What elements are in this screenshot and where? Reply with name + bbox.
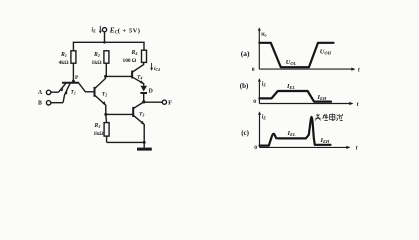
svg-text:D: D xyxy=(149,88,153,94)
graph (a) x-axis t xyxy=(252,67,360,73)
svg-text:1kΩ: 1kΩ xyxy=(92,60,103,66)
svg-text:1kΩ: 1kΩ xyxy=(94,131,105,137)
resistor R1 4k xyxy=(59,51,76,66)
svg-text:IEL: IEL xyxy=(287,130,296,137)
svg-text:UOH: UOH xyxy=(320,49,332,56)
wire: T2 emitter node to T3 base xyxy=(106,113,133,115)
wire: bottom rail R3 to T3 emitter xyxy=(107,141,145,143)
graph (a) waveform xyxy=(259,43,333,67)
svg-text:(a): (a) xyxy=(241,49,250,58)
svg-text:T2: T2 xyxy=(102,91,107,97)
node: T2 collector / T4 base xyxy=(104,75,107,78)
svg-text:(b): (b) xyxy=(240,82,249,90)
graph (b) x-axis t xyxy=(253,99,359,108)
svg-text:EC( + 5V): EC( + 5V) xyxy=(109,26,141,35)
transistor T3 (output pull-down) xyxy=(133,102,144,142)
node: supply-rail junction xyxy=(103,41,106,44)
ground xyxy=(137,142,152,150)
transistor T1 (multi-emitter input) xyxy=(58,83,94,103)
svg-text:F: F xyxy=(168,100,172,107)
svg-text:R1: R1 xyxy=(60,52,67,58)
svg-text:IEH: IEH xyxy=(320,137,330,144)
svg-text:iE: iE xyxy=(262,115,267,121)
graph (a) y-axis uo xyxy=(258,27,267,69)
wire: top rail xyxy=(73,42,144,51)
input terminal A xyxy=(38,90,58,96)
graph (c) waveform with current spike xyxy=(260,117,331,146)
svg-text:R4: R4 xyxy=(131,50,138,56)
svg-text:4kΩ: 4kΩ xyxy=(59,60,70,66)
output terminal F xyxy=(144,100,172,107)
svg-text:0: 0 xyxy=(253,99,256,105)
svg-text:T1: T1 xyxy=(71,90,76,96)
label spike current (Chinese pseudo-glyphs) xyxy=(315,114,343,121)
svg-text:P: P xyxy=(75,75,79,81)
resistor R2 1k xyxy=(92,51,109,66)
svg-text:R3: R3 xyxy=(94,123,101,129)
graph (b) waveform xyxy=(259,91,331,102)
diode D xyxy=(140,86,152,102)
wire: T2 collector node to T4 base xyxy=(106,75,133,77)
svg-text:B: B xyxy=(38,100,42,106)
graph (b) y-axis iE xyxy=(258,78,266,104)
transistor T2 (phase splitter) xyxy=(95,76,108,114)
svg-text:iE: iE xyxy=(92,28,97,34)
svg-text:100 Ω: 100 Ω xyxy=(123,58,137,64)
svg-text:R2: R2 xyxy=(93,52,100,58)
svg-text:IEL: IEL xyxy=(286,83,295,90)
wire: supply drop to top rail xyxy=(104,32,106,43)
wire: R1 to T1 base (node P) xyxy=(72,63,74,82)
node: T2 emitter junction xyxy=(104,113,107,116)
resistor R4 100 ohm xyxy=(123,50,147,64)
graph (c) x-axis t xyxy=(254,145,357,152)
wire: R2 down to T2 collector node xyxy=(105,63,107,76)
node: output junction xyxy=(142,100,145,103)
svg-text:(c): (c) xyxy=(241,129,249,137)
svg-text:T3: T3 xyxy=(139,111,144,117)
supply terminal EC(+5V) with iE arrow xyxy=(92,26,141,36)
node P xyxy=(72,75,79,83)
node: ground junction xyxy=(143,141,146,144)
graph (c) y-axis iE xyxy=(258,111,266,147)
transistor T4 (pull-up) xyxy=(132,62,144,85)
svg-text:iE: iE xyxy=(262,81,267,87)
svg-text:0: 0 xyxy=(252,67,255,73)
input terminal B xyxy=(38,100,63,106)
svg-text:IEH: IEH xyxy=(317,94,327,101)
svg-text:UOL: UOL xyxy=(286,59,297,66)
resistor R3 1k xyxy=(94,114,110,142)
svg-text:uo: uo xyxy=(261,31,266,37)
current arrow iC4 xyxy=(150,63,160,72)
svg-text:0: 0 xyxy=(254,145,257,151)
svg-text:T4: T4 xyxy=(137,75,142,81)
